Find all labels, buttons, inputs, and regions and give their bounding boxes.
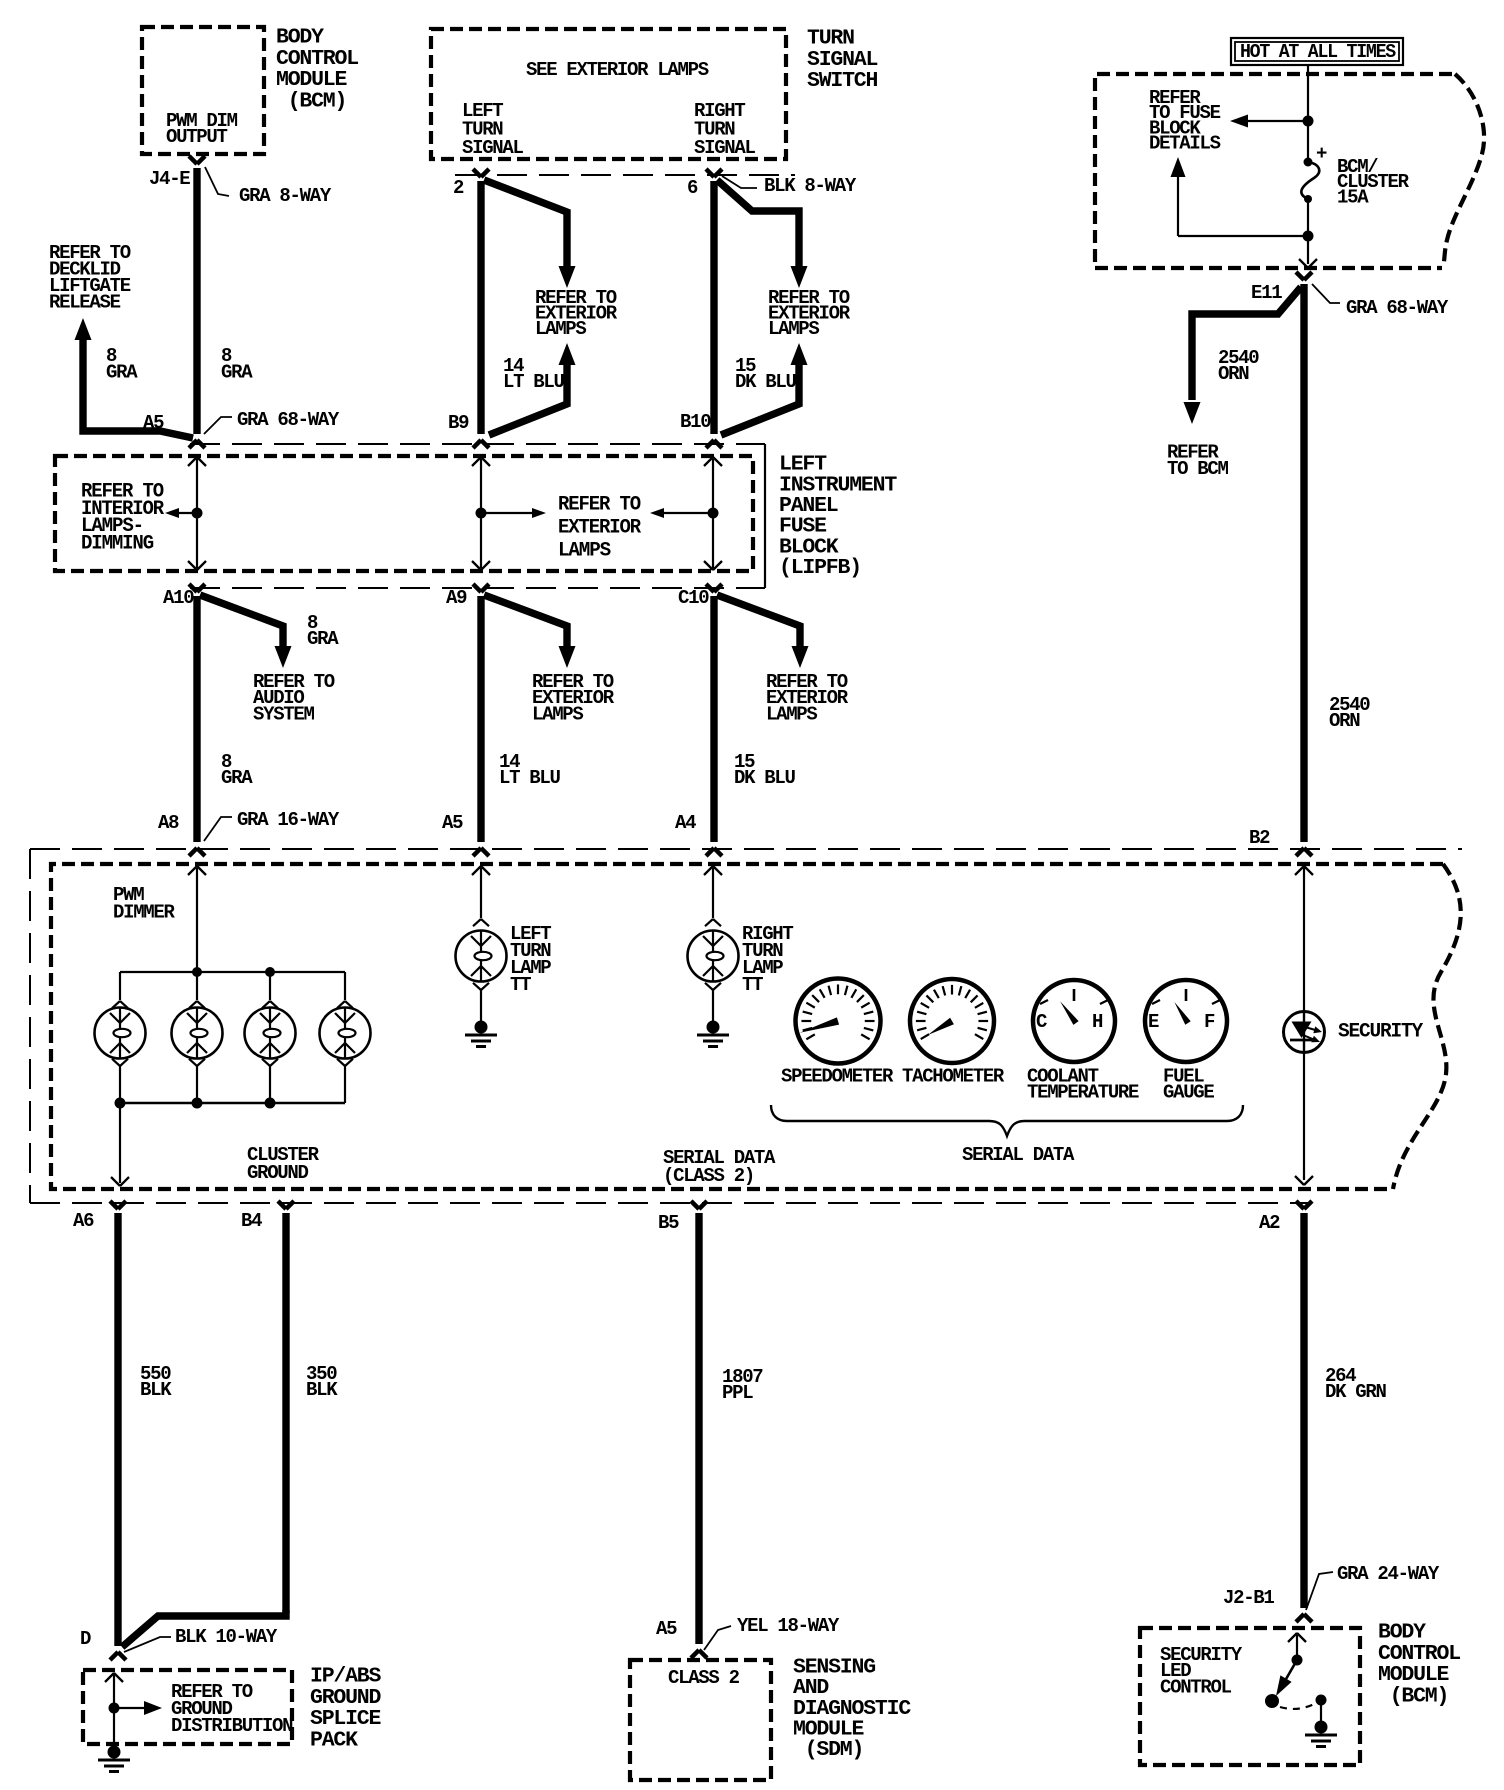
illumination lamp 2 [172,1008,223,1059]
label BCM/ CLUSTER 15A [1337,156,1410,208]
connector label BLK 8-WAY [722,175,857,197]
pin label B2 [1249,827,1270,849]
svg-text:E11: E11 [1251,282,1282,304]
svg-text:TO BCM: TO BCM [1167,458,1229,480]
svg-text:B5: B5 [658,1212,679,1234]
lamp bus (bottom) [120,1102,345,1105]
svg-text:A8: A8 [158,812,179,834]
svg-text:H: H [1092,1011,1103,1033]
node dot bus 4 [192,1098,203,1109]
node dot A5-A10 [192,508,203,519]
wire fuse out to E11 [1299,236,1317,268]
node junction dot (fuse out) [1303,231,1314,242]
svg-text:C10: C10 [678,587,709,609]
label TURN SIGNAL SWITCH [807,27,878,94]
component box: TURN SIGNAL SWITCH [431,29,786,159]
svg-text:LAMPS: LAMPS [766,703,817,725]
svg-text:BLK 8-WAY: BLK 8-WAY [764,175,857,197]
svg-text:(SDM): (SDM) [793,1738,863,1762]
label SENSING AND DIAGNOSTIC MODULE (SDM) [793,1656,911,1762]
pin label 6 [687,177,698,199]
svg-text:GRA: GRA [221,767,253,789]
node dot B9-A9 [476,508,487,519]
label LEFT TURN LAMP TT [510,923,551,996]
wire label 350 BLK [306,1363,338,1401]
svg-text:SIGNAL: SIGNAL [694,137,756,159]
ground (splice pack) [98,1746,130,1772]
label REFER TO EXTERIOR LAMPS (mid left) [532,671,615,725]
wire label 264 DK GRN [1325,1365,1387,1403]
connector label GRA 8-WAY [205,167,332,207]
svg-text:GRA: GRA [221,361,253,383]
label PWM DIMMER [113,884,176,924]
svg-text:OUTPUT: OUTPUT [166,126,228,148]
svg-text:HOT AT ALL TIMES: HOT AT ALL TIMES [1240,41,1396,63]
label REFER TO AUDIO SYSTEM [253,671,335,725]
ground (right turn lamp) [697,1021,729,1047]
svg-text:DK BLU: DK BLU [735,371,797,393]
fuse block pass-through A5-A10 [188,457,206,570]
svg-text:BLK 10-WAY: BLK 10-WAY [175,1626,278,1648]
wire E11 to B2 (2540 ORN) [1296,272,1312,856]
wire B5 to A5 (1807 PPL) [691,1201,707,1658]
svg-text:SPEEDOMETER: SPEEDOMETER [781,1066,894,1088]
label LEFT TURN SIGNAL [462,100,524,159]
svg-text:GRA: GRA [106,361,138,383]
gauge: coolant temperature [1033,980,1115,1062]
pin label A2 [1259,1212,1280,1234]
svg-text:SIGNAL: SIGNAL [462,137,524,159]
label REFER TO EXTERIOR LAMPS (tss right) [768,287,851,340]
svg-text:A4: A4 [675,812,696,834]
node dot bus 2 [265,967,275,977]
lamp 1 lead [112,972,128,1008]
svg-text:RELEASE: RELEASE [49,292,121,314]
ground (security LED control) [1305,1721,1337,1747]
label REFER TO BCM [1167,442,1229,481]
svg-text:A6: A6 [73,1210,94,1232]
pin label B9 [448,412,469,434]
node junction dot (feed) [1303,116,1314,127]
wire label 8 GRA (right) [221,345,253,383]
svg-text:PPL: PPL [722,1382,753,1404]
left turn lamp feed [472,866,490,926]
connector line below TSS [455,174,795,176]
fuse BCM/CLUSTER 15A (element) [1301,143,1327,235]
svg-text:6: 6 [687,177,698,199]
svg-text:GRA: GRA [307,628,339,650]
switch travel dashed arc [1280,1704,1314,1709]
pin label A5 (cluster) [442,812,463,834]
component box: LEFT INSTRUMENT PANEL FUSE BLOCK (LIPFB) [55,456,753,571]
wire branch arrow to exterior lamps (mid right) [717,595,809,668]
svg-text:DETAILS: DETAILS [1149,133,1221,155]
wire branch down-arrow to exterior lamps (right) [717,180,808,288]
label RIGHT TURN SIGNAL [694,100,756,159]
svg-text:LAMPS: LAMPS [535,318,586,340]
svg-text:A5: A5 [656,1618,677,1640]
svg-text:LAMPS: LAMPS [532,703,583,725]
connector line below cluster [30,1202,1310,1204]
wire branch arrow to audio system [200,595,292,668]
cluster feed arrow A8 [188,866,206,972]
node dot switch pivot [1292,1655,1303,1666]
lamp 2 lead [189,972,205,1008]
component box: instrument cluster (dashed with torn right edge) [51,864,1461,1189]
pin label A5 (sdm) [656,1618,677,1640]
security LED to A2 wire [1295,1052,1313,1185]
label SERIAL DATA (CLASS 2) [663,1147,776,1187]
wire B4 to D (350 BLK) [122,1201,294,1647]
connector line above fuse block [190,443,765,445]
illumination lamp 4 [320,1008,371,1059]
connector line above cluster [30,848,1462,850]
arrow to exterior lamps (from right) [650,508,713,518]
security indicator LED [1284,1012,1325,1053]
connector line below fuse block [190,587,765,589]
pin label D [80,1628,91,1650]
svg-text:TT: TT [510,974,531,996]
connector label GRA 16-WAY [204,809,340,841]
label LEFT INSTRUMENT PANEL FUSE BLOCK (LIPFB) [779,453,897,580]
wire J4-E to A5 (8 GRA) [189,156,205,448]
switch arm (security LED control) [1276,1660,1297,1696]
svg-text:PACK: PACK [310,1729,358,1753]
wire branch arrow to exterior lamps (mid left) [484,595,576,668]
node dot B10-C10 [708,508,719,519]
wire label 2540 ORN (upper) [1218,347,1259,385]
lamp 4 lead [337,972,353,1008]
label box HOT AT ALL TIMES [1231,38,1403,65]
svg-text:DK BLU: DK BLU [734,767,796,789]
wire A10 to A8 (8 GRA) [189,584,205,856]
svg-text:EXTERIOR: EXTERIOR [558,517,641,540]
label REFER TO EXTERIOR LAMPS (mid right) [766,671,849,725]
wire label 8 GRA (branch) [307,612,339,650]
wire branch up-arrow from exterior lamps (left) [489,343,576,435]
pin label B4 [241,1210,262,1232]
component box: BODY CONTROL MODULE (bottom) [1140,1628,1360,1765]
wire label 8 GRA (left) [106,345,138,383]
brace for serial data gauges [771,1105,1243,1136]
lamp 1 lead lower [112,1059,128,1103]
cluster ground wire [111,1103,129,1186]
label IP/ABS GROUND SPLICE PACK [310,1665,382,1753]
node dot bus 3 [115,1098,126,1109]
wire C10 to A4 (15 DK BLU) [706,584,722,856]
pin label A8 [158,812,179,834]
svg-text:BLK: BLK [140,1379,172,1401]
svg-text:(BCM): (BCM) [276,90,346,114]
pin label A6 [73,1210,94,1232]
splice pack internal arrow up [105,1673,123,1708]
pin label 2 [453,177,464,199]
arrow to fuse block details (left) [1230,115,1308,128]
gauge: fuel gauge [1145,980,1227,1062]
label REFER TO DECKLID LIFTGATE RELEASE [49,242,131,314]
switch feed arrow (J2-B1) [1288,1633,1306,1660]
svg-text:A9: A9 [446,587,467,609]
connector label GRA 68-WAY [204,409,340,434]
svg-text:A2: A2 [1259,1212,1280,1234]
wire A9 to A5 (14 LT BLU) [473,584,489,856]
label REFER TO EXTERIOR LAMPS (lipfb) [558,494,641,563]
svg-text:(LIPFB): (LIPFB) [779,556,861,580]
node dot bus 5 [265,1098,276,1109]
svg-text:DIMMER: DIMMER [113,902,176,924]
svg-text:B2: B2 [1249,827,1270,849]
component box: IP/ABS ground splice pack [83,1670,292,1744]
lamp bus (top) [120,971,345,973]
label REFER TO GROUND DISTRIBUTION [171,1681,293,1737]
svg-text:DK GRN: DK GRN [1325,1381,1387,1403]
wire 2 to B9 (14 LT BLU) [473,169,489,448]
arrow to interior lamps dimming [165,508,197,518]
wire from hot feed into fuse box [1307,64,1309,162]
svg-text:LAMPS: LAMPS [558,540,611,563]
wire 6 to B10 (15 DK BLU) [706,169,722,448]
node dot switch throw (left) [1265,1694,1279,1708]
svg-text:GRA 68-WAY: GRA 68-WAY [1346,297,1449,319]
lamp 3 lead [262,972,278,1008]
lamp 3 lead lower [262,1059,278,1103]
component box: fuse block (dashed with torn right edge) [1095,74,1484,268]
svg-text:GROUND: GROUND [247,1162,309,1184]
connector label GRA 68-WAY (E11) [1312,284,1449,319]
svg-text:TT: TT [742,974,763,996]
connector label YEL 18-WAY [704,1615,840,1650]
wire A2 to J2-B1 (264 DK GRN) [1296,1201,1312,1622]
svg-text:C: C [1036,1011,1047,1033]
svg-text:F: F [1204,1011,1215,1033]
svg-text:DISTRIBUTION: DISTRIBUTION [171,1715,293,1737]
svg-text:(BCM): (BCM) [1378,1685,1448,1709]
svg-text:2: 2 [453,177,464,199]
wire label 8 GRA (lower) [221,751,253,789]
component box: BODY CONTROL MODULE (BCM) [142,27,264,154]
pin label E11 [1251,282,1282,304]
svg-text:DIMMING: DIMMING [81,533,154,556]
label COOLANT TEMPERATURE [1027,1066,1139,1104]
label CLUSTER GROUND [247,1144,320,1184]
svg-text:LT BLU: LT BLU [503,371,565,393]
pin label J2-B1 [1223,1587,1274,1609]
wire label 15 DK BLU (upper) [735,355,797,393]
svg-text:SEE EXTERIOR LAMPS: SEE EXTERIOR LAMPS [526,59,709,81]
svg-text:ORN: ORN [1218,363,1249,385]
label SECURITY [1338,1021,1423,1044]
wire branch arrow to BCM [1184,287,1302,424]
pin label J4-E [149,168,190,190]
svg-text:GAUGE: GAUGE [1163,1082,1214,1104]
gauge: speedometer [796,979,881,1064]
svg-text:LT BLU: LT BLU [499,767,561,789]
pin label A4 [675,812,696,834]
svg-text:SERIAL DATA: SERIAL DATA [962,1144,1075,1166]
splice pack ground lead [113,1708,115,1748]
wire label 14 LT BLU (lower) [499,751,561,789]
pin label A5 [143,412,164,434]
ground (left turn lamp) [465,1021,497,1047]
pin label C10 [678,587,709,609]
label BODY CONTROL MODULE (BCM) [276,26,358,114]
svg-text:SWITCH: SWITCH [807,69,878,93]
svg-text:J4-E: J4-E [149,168,190,190]
illumination lamp 3 [245,1008,296,1059]
label FUEL GAUGE [1163,1066,1214,1104]
svg-text:REFER TO: REFER TO [558,494,641,517]
svg-text:SECURITY: SECURITY [1338,1021,1423,1044]
right turn lamp ground lead [705,983,721,1021]
wire label 15 DK BLU (lower) [734,751,796,789]
pin label A10 [163,587,194,609]
connector label BLK 10-WAY [124,1626,278,1652]
svg-text:GRA 68-WAY: GRA 68-WAY [237,409,340,431]
node dot bus 1 [192,967,202,977]
wire label 14 LT BLU (upper) [503,355,565,393]
svg-text:A5: A5 [442,812,463,834]
svg-text:CONTROL: CONTROL [1160,1676,1232,1698]
label TACHOMETER [902,1066,1005,1088]
svg-text:B9: B9 [448,412,469,434]
pin label B10 [680,411,711,433]
lamp 2 lead lower [189,1059,205,1103]
label SERIAL DATA (center) [962,1144,1075,1166]
svg-text:B4: B4 [241,1210,262,1232]
svg-text:SYSTEM: SYSTEM [253,703,315,725]
wire label 1807 PPL [722,1366,763,1404]
svg-text:TEMPERATURE: TEMPERATURE [1027,1082,1139,1104]
wire label 550 BLK [140,1363,172,1401]
switch contact ground lead [1320,1700,1322,1724]
pin label A9 [446,587,467,609]
fuse block pass-through B9-A9 [472,457,490,570]
svg-text:J2-B1: J2-B1 [1223,1587,1274,1609]
cluster outer boundary line (left) [29,849,31,1203]
wire label 2540 ORN (lower) [1329,694,1370,732]
pin label B5 [658,1212,679,1234]
svg-text:D: D [80,1628,91,1650]
wire branch arrow to decklid release [75,318,194,438]
svg-text:A10: A10 [163,587,194,609]
svg-text:LAMPS: LAMPS [768,318,819,340]
right turn lamp [688,931,739,982]
label REFER TO FUSE BLOCK DETAILS [1149,87,1221,155]
svg-text:TACHOMETER: TACHOMETER [902,1066,1005,1088]
left turn lamp ground lead [473,983,489,1021]
svg-text:BLK: BLK [306,1379,338,1401]
label RIGHT TURN LAMP TT [742,923,793,996]
illumination lamp 1 [95,1008,146,1059]
label SPEEDOMETER [781,1066,894,1088]
wire A6 to D (550 BLK) [110,1201,126,1660]
arrow to ground distribution [114,1701,162,1715]
connector label GRA 24-WAY [1306,1563,1440,1610]
svg-text:GRA 24-WAY: GRA 24-WAY [1337,1563,1440,1585]
label BODY CONTROL MODULE (BCM) (bottom) [1378,1621,1460,1709]
left turn lamp [456,931,507,982]
svg-text:ORN: ORN [1329,710,1360,732]
wire branch down-arrow to exterior lamps (left) [484,180,576,288]
component box: CLASS 2 (SDM) [630,1660,771,1780]
wire branch up-arrow from exterior lamps (right) [721,343,808,435]
bracket for LIPFB label [764,444,766,588]
svg-text:15A: 15A [1337,186,1369,208]
label REFER TO EXTERIOR LAMPS (tss left) [535,287,618,340]
fuse block pass-through B10-C10 [704,457,722,570]
svg-text:(CLASS 2): (CLASS 2) [663,1165,754,1187]
svg-text:+: + [1316,143,1327,165]
svg-text:CLASS 2: CLASS 2 [668,1667,740,1689]
arrow up to fuse block details [1171,157,1304,236]
node dot splice [109,1703,120,1714]
node dot switch contact (right) [1316,1695,1327,1706]
lamp 4 lead lower [337,1059,353,1103]
svg-text:GRA 16-WAY: GRA 16-WAY [237,809,340,831]
security LED feed [1295,866,1313,1012]
label SECURITY LED CONTROL [1160,1644,1243,1698]
gauge: tachometer [910,979,994,1063]
svg-text:GRA 8-WAY: GRA 8-WAY [239,185,332,207]
arrow to exterior lamps (from left) [481,508,546,518]
svg-text:B10: B10 [680,411,711,433]
label REFER TO INTERIOR LAMPS-DIMMING [81,481,164,556]
svg-text:E: E [1148,1011,1159,1033]
svg-text:YEL 18-WAY: YEL 18-WAY [737,1615,840,1637]
right turn lamp feed [704,866,722,926]
